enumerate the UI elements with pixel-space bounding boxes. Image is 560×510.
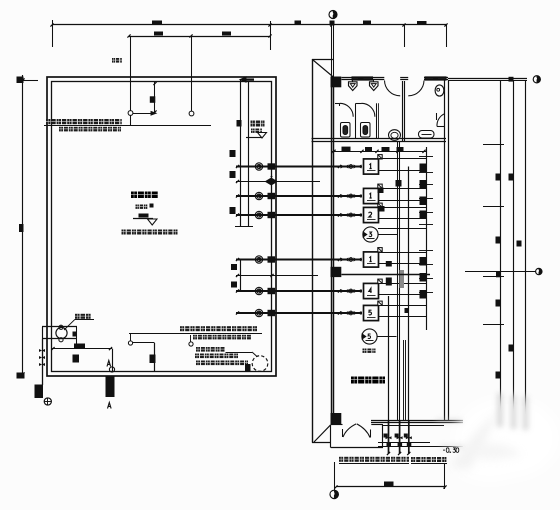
suction pipe 5 valve train [341,289,345,293]
manifold pipe v1 [240,80,242,227]
pump P5 outlet valve [378,279,382,283]
door swing left room [385,81,401,96]
coupler valve group 2 [395,434,399,438]
stall door arc 1 [340,103,353,116]
discharge pipe 4a [379,252,427,254]
pump circle C2 [362,329,377,344]
note A underline [129,333,262,335]
pit dimension line [52,348,113,350]
pipe label blob b [230,171,236,178]
suction pipe 6 valve train [341,311,345,315]
header x426 [426,147,428,330]
pump P4 outlet valve [378,248,382,252]
suction pipe 4 valve train [341,258,345,262]
drain leader circle [128,341,132,345]
suction pipe 3 [236,214,362,216]
header tick 8 [419,264,433,266]
pump P5 body [364,283,379,298]
suction pipe 4 gate valve circle [255,256,262,263]
stall wall stub [335,103,340,105]
header tick 3 [419,184,433,186]
suction pipe 2 [236,195,362,197]
pipe label blob c [230,207,236,214]
pipe label blob d [231,264,237,270]
web blob d [386,261,392,267]
pump C2 outlet [377,336,396,338]
note B line2 [195,354,199,359]
pump room dim line [332,151,426,153]
left dimension line [22,75,24,378]
note A line1 [180,326,184,331]
dim text on top line seg4 [417,21,427,25]
service blob 4 [517,241,522,247]
pool inner wall [52,82,272,372]
dim text 9000 on top line [152,21,162,25]
sump pipe valve1 [39,349,42,352]
pump dim text d [397,147,404,151]
riser pipe x191 [191,36,193,111]
riser v x397 [397,141,399,420]
suction pipe 5 wall sleeve [268,288,276,294]
dim text on top line seg2 [295,21,302,25]
suction pipe 2 gate valve circle [255,192,262,199]
vent symbol 2 [370,82,379,91]
pump dim text c [382,147,390,151]
label hydrant coupler [411,457,415,462]
left dim text [19,224,24,232]
window hatch 2 [425,77,446,80]
header tick 1 [419,156,433,158]
label sprinkler coupler [339,457,343,462]
axis shaft double line [331,24,333,87]
riser outlet circle x191 [189,111,194,116]
apron line [378,446,463,448]
header tick 4 [419,198,433,200]
drain pipe elbow [133,342,155,344]
suction pipe 6 gate valve circle [255,309,262,316]
pump circle C1 [363,227,378,242]
left dim bottom arrow [17,373,25,379]
coupler riser 3 [408,420,410,454]
interior dim v text [150,96,156,103]
pump dim text a [342,147,351,151]
axis line B right [465,271,536,273]
section circle upper [109,367,114,372]
sump pipe valve2 [39,356,42,359]
vent symbol 1 [349,82,358,91]
suction pipe 4 wall sleeve [268,256,276,262]
header tick 5 [419,212,433,214]
header tick 2 [419,172,433,174]
discharge pipe 6b [379,316,427,318]
water level mark [139,214,149,218]
urinal [419,131,435,139]
dim text on top line seg3 [363,21,371,25]
sump pipe valve3 [39,363,42,366]
suction pipe 1 wall sleeve [268,163,276,169]
corner splay diagonal [313,60,335,78]
hole wall sleeve [245,364,251,372]
suction pipe 1 gate valve circle [255,163,262,170]
pump P1 body [364,159,379,174]
label jinshuiguan [251,121,255,127]
pool outer wall [47,77,276,376]
south wall double [371,420,463,422]
coupler valve group 1 [384,434,388,438]
watermark white wash [452,398,559,482]
witness line x446 [446,24,448,47]
axis bubble right lower [536,268,542,274]
interior wall double [331,87,333,413]
bottom wall corner [312,442,331,444]
suction pipe 3 wall sleeve [268,212,276,218]
axis line sleeve [509,77,514,82]
witness line x270 [270,21,272,50]
web blob f [405,308,410,313]
bottom dim text [384,482,394,487]
pool volume note [122,230,126,235]
inlet sleeve blob [237,120,242,127]
axis bubble top (grid 2) [329,11,337,19]
coupler riser 1 [388,420,390,454]
pump C1 outlet [378,234,397,236]
toilet right room [435,85,444,96]
header tick 9 [419,278,433,280]
service blob 1 [496,174,502,181]
witness line left of top dims [52,20,54,47]
service tick y325 [483,324,504,326]
manifold pipe v2 [248,82,250,227]
entrance splay diagonal [314,425,331,442]
pump P2 outlet valve [378,184,382,188]
window hatch 1 [352,77,373,80]
riser outlet circle x130 [128,111,133,116]
sump pipe text blob [73,355,80,363]
suction pipe 3 valve train [341,213,345,217]
suction pipe 2 wall sleeve [268,193,276,199]
web blob a [378,188,384,194]
pump P4 body [364,252,379,267]
pump P3 body [364,207,379,222]
shaft wall sleeve bottom [331,413,342,424]
coupler cross line [378,442,430,444]
east wall double [444,80,446,421]
benchmark circle-cross [44,398,51,405]
note vent pipe line1 [46,119,50,124]
bottom dim witness left [334,462,336,490]
suction pipe 5 gate valve circle [255,287,262,294]
service tick y145 [483,144,504,146]
sump drain pipe [42,339,44,385]
header label blob 6 [420,273,428,282]
top wall extension to axis [448,78,527,80]
south wall inner face [383,425,444,427]
label JiShuiKeng [75,314,80,319]
pump P2 body [364,188,379,203]
fill pipe thin y181 [236,181,320,183]
note B leader [226,352,253,354]
dim text line2-b [222,32,231,36]
riser pipe x130 [130,36,132,111]
section line A upper [112,349,114,372]
building top edge [312,59,333,61]
header label blob 1 [420,164,428,173]
discharge pipe 1a [379,158,427,160]
riser v x399 [399,141,401,420]
header label blob 2 [420,180,428,189]
elevation text -4.5 [112,58,115,63]
west wall [312,59,314,443]
suction pipe 4 [236,258,362,260]
long pipe y228 [378,228,426,230]
sump pump circle [56,327,67,338]
suction pipe 1 [236,165,362,167]
bottom dimension line [336,486,446,488]
web blob e [386,278,392,286]
wash basin [389,130,401,141]
bottom dim witness right [444,464,446,489]
partition wall mid [402,81,404,141]
manifold pipe v3 lower [240,260,242,292]
pump room title [351,377,357,384]
header label blob 5 [420,257,428,266]
sump pump blob [73,332,78,337]
elevation -0.30 [443,449,445,451]
web blob c [396,180,402,187]
section letter A lower [108,403,112,409]
stall door arc 2 [362,103,375,116]
service line 3 [525,80,527,414]
door swing right room [408,81,424,96]
suction pipe 1 valve train [341,165,345,169]
shaft wall sleeve middle [331,267,342,277]
suction pipe 2 valve train [341,194,345,198]
suction pipe 6 [236,312,362,314]
vestibule box [330,425,332,448]
drain wall sleeve [150,355,156,364]
note A line2 [193,335,197,340]
dimension line top-2 [129,36,270,38]
discharge pipe 2a [379,188,427,190]
discharge pipe 2b [379,200,427,202]
header label blob 3 [420,197,428,206]
label jinshuiguan line2 [251,129,255,133]
pool title XiaoFangShuiChi [131,192,137,199]
interior dim arrow line [133,113,155,115]
pump P3 outlet valve [378,203,382,207]
witness line x404 [404,24,406,47]
axis bubble right upper [533,76,540,83]
header label blob 7 [420,290,428,299]
service blob 6 [496,300,502,307]
section arrow lower [106,377,115,398]
riser thin pair [403,340,405,420]
riser v x388 [388,296,390,420]
header tick 6 [419,224,433,226]
pump P6 body [364,305,379,320]
sump pit outline [42,326,77,328]
label below C2 [363,349,367,353]
service blob 7 [509,345,515,352]
header tick 7 [419,250,433,252]
watermark swirl [450,410,522,470]
dimension line top-1 [52,24,446,26]
service blob 8 [496,372,502,379]
service tick y206 [483,206,504,208]
coupler valve group 3 [404,434,408,438]
level triangle at inlet [246,137,262,139]
sump pump body below wall [35,385,44,399]
manifold break tick [235,226,253,228]
bathroom floor wall [312,138,447,140]
service blob 2 [509,174,515,181]
suction pipe 6 wall sleeve [268,310,276,316]
riser v x408 [408,167,410,421]
discharge pipe 3a [379,207,427,209]
header label blob 4 [420,211,428,220]
web capsule [400,270,405,288]
overflow pipe thin y275 [236,275,318,277]
pump P6 outlet valve [378,301,382,305]
double door leaves [342,429,344,437]
note B line1 [196,347,200,352]
pool level (+-0.00) [136,205,139,209]
section letter A upper [107,361,111,367]
interior dim v x155 [154,82,156,113]
pipe label blob e [231,282,237,288]
inlet pipe arrow [244,78,254,80]
right room door arc [436,113,438,120]
discharge pipe 5a [379,283,427,285]
discharge pipe 5b [379,294,427,296]
pump P1 outlet valve [378,155,382,159]
service line 1 [500,80,502,412]
suction pipe 3 gate valve circle [255,211,262,218]
service tick y276 [483,276,504,278]
squat toilet 1 [341,123,351,138]
pit dim text [74,344,85,349]
axis bubble bottom [330,490,338,498]
discharge pipe 6a [379,305,427,307]
pipe label blob a [230,150,236,157]
pump dim text b [365,147,372,151]
note vent pipe line2 [59,127,63,132]
squat toilet 2 [361,123,371,138]
service line 2 [513,80,515,413]
left dim tick top [23,80,38,82]
shaft wall sleeve top [331,77,342,88]
fill pipe arrow symbol [266,178,272,185]
service blob 5 [496,272,501,278]
suction pipe 5 [236,290,362,292]
stall partition 2 [376,103,378,139]
header tick 10 [419,292,433,294]
discharge pipe 3b [379,218,427,220]
note B line3 [196,361,200,366]
note vent pipe underline [44,125,211,127]
axis line B sleeve to wall [342,274,431,276]
reserved hole dashed circle [252,356,268,372]
stall partition 1 [355,103,357,139]
service blob 3 [496,237,502,244]
dim text line2-a [154,32,163,36]
note A leader circle [189,342,193,346]
bath top wall outer [342,77,385,79]
discharge pipe 4b [379,263,427,265]
watermark gray streaks [436,393,529,448]
web blob b [378,206,385,212]
discharge pipe 1b [379,170,427,172]
coupler riser 2 [399,420,401,454]
